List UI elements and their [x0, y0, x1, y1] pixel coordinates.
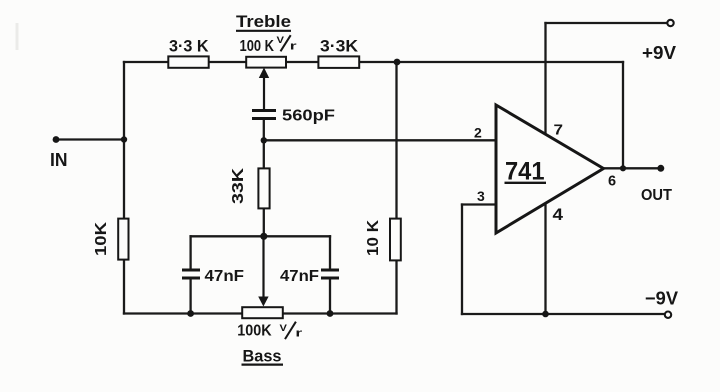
- svg-text:10K: 10K: [93, 221, 110, 256]
- svg-text:7: 7: [554, 122, 564, 139]
- capacitor C2 47nF left: [182, 270, 200, 278]
- node: input junction: [121, 136, 127, 142]
- capacitor C3 47nF right: [321, 270, 339, 278]
- svg-text:741: 741: [505, 157, 545, 185]
- wire: capacitor top rail: [191, 235, 330, 237]
- resistor R5 10K right: [390, 219, 401, 261]
- wire: middle column through 33K: [263, 140, 265, 236]
- wire: pin2 input line: [263, 120, 265, 140]
- node: bottom rail right cap junction: [327, 310, 334, 317]
- svg-text:47nF: 47nF: [280, 268, 319, 285]
- node: IN terminal: [53, 136, 60, 143]
- resistor R1 3.3K: [168, 56, 208, 67]
- wire: right 47nF drops: [329, 236, 331, 269]
- svg-text:V: V: [277, 35, 285, 46]
- scan smudge top-left: [16, 23, 19, 50]
- node: pin4 junction on -9V rail: [542, 311, 549, 318]
- svg-text:−9V: −9V: [645, 288, 679, 309]
- wire: bottom rail: [124, 312, 397, 314]
- svg-text:3: 3: [477, 188, 485, 204]
- wire: pin3 stub: [462, 203, 496, 205]
- wire: -9V rail: [462, 313, 665, 315]
- node: top rail right junction: [394, 59, 401, 66]
- node: bottom rail left cap junction: [187, 310, 194, 317]
- wire: top rail (feedback): [124, 61, 623, 63]
- svg-text:100K: 100K: [237, 323, 272, 340]
- wire: right vertical branch: [395, 62, 397, 314]
- resistor R4 10K left: [118, 219, 128, 260]
- svg-text:Treble: Treble: [236, 12, 291, 31]
- terminal +9V: [667, 20, 673, 26]
- terminal -9V: [665, 312, 671, 318]
- svg-text:OUT: OUT: [641, 187, 672, 204]
- wire: left vertical branch: [123, 62, 125, 314]
- svg-text:10 K: 10 K: [365, 220, 382, 256]
- wire: output: [604, 167, 661, 169]
- op-amp U1 741: [496, 105, 604, 233]
- wire: feedback drop to output: [622, 62, 624, 168]
- svg-text:47nF: 47nF: [205, 268, 245, 285]
- svg-text:560pF: 560pF: [282, 108, 335, 125]
- svg-text:100 K: 100 K: [240, 38, 275, 55]
- svg-text:+9V: +9V: [642, 42, 677, 63]
- svg-text:IN: IN: [50, 149, 68, 170]
- svg-text:6: 6: [608, 173, 616, 189]
- resistor R2 3.3K: [318, 56, 359, 68]
- node: output junction: [620, 165, 626, 171]
- svg-text:33K: 33K: [230, 167, 247, 204]
- svg-text:V: V: [280, 323, 288, 334]
- wire: pin7 to +9V rail: [544, 23, 546, 138]
- svg-text:Bass: Bass: [243, 347, 282, 366]
- svg-text:r: r: [290, 41, 298, 53]
- capacitor C1 560pF: [252, 111, 276, 119]
- potentiometer VR2 bass 100K: [242, 307, 283, 318]
- svg-text:r: r: [295, 328, 303, 340]
- wire: left 47nF drops: [189, 236, 191, 269]
- wire: pin4 drop: [544, 170, 546, 314]
- svg-text:2: 2: [474, 125, 482, 141]
- resistor R3 33K: [258, 168, 269, 208]
- potentiometer VR1 treble 100K: [246, 57, 286, 68]
- node: pin2 junction: [261, 137, 267, 143]
- svg-text:3·3 K: 3·3 K: [169, 36, 209, 55]
- treble wiper arrow: [259, 68, 269, 79]
- svg-text:4: 4: [553, 206, 564, 224]
- node: output terminal: [657, 165, 664, 172]
- svg-text:3·3K: 3·3K: [320, 36, 359, 55]
- wire: input to left node: [56, 138, 124, 140]
- node: caps rail junction: [260, 233, 267, 240]
- bass wiper arrow: [262, 236, 264, 299]
